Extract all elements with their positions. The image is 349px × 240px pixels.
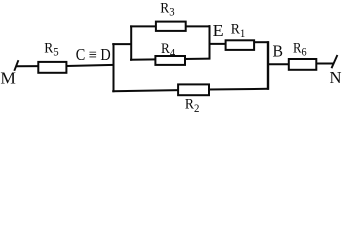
node B vertical (267, 41, 269, 90)
svg-text:M: M (0, 69, 16, 88)
resistor R4 (155, 56, 185, 65)
svg-text:R3: R3 (160, 1, 174, 19)
wire node B to R6 (267, 63, 290, 65)
resistor R5 (38, 62, 66, 73)
wire parallel bank to node E and R1 (209, 43, 227, 45)
svg-text:R2: R2 (185, 97, 200, 115)
resistor R3 (156, 22, 186, 31)
wire M to R5 (16, 65, 39, 67)
svg-text:R5: R5 (44, 41, 58, 59)
wire R5 to node D (66, 65, 114, 66)
bottom wire node D to R2 (112, 90, 179, 91)
wire R6 to terminal N (316, 63, 334, 65)
junction vertical at node D (113, 43, 115, 92)
wire top branch to R3 (130, 25, 210, 27)
parallel bank right vertical (209, 25, 211, 59)
wire bottom branch to R4 (130, 59, 210, 60)
terminal M diagonal tick (14, 60, 18, 71)
svg-text:R4: R4 (161, 41, 175, 59)
resistor R6 (289, 59, 317, 70)
svg-text:C ≡ D: C ≡ D (76, 45, 111, 64)
svg-text:E: E (213, 21, 224, 40)
terminal N diagonal tick (332, 55, 338, 68)
svg-text:R1: R1 (231, 22, 246, 40)
svg-text:N: N (330, 68, 342, 87)
wire R2 to node B bottom corner (208, 88, 269, 91)
resistor R1 (226, 40, 255, 50)
wire R1 to node B corner (254, 41, 269, 43)
wire node D to parallel bank mid-left (112, 43, 132, 45)
svg-text:R6: R6 (293, 40, 307, 58)
parallel bank left vertical (130, 25, 132, 60)
svg-text:B: B (273, 42, 284, 61)
resistor R2 (178, 84, 209, 95)
